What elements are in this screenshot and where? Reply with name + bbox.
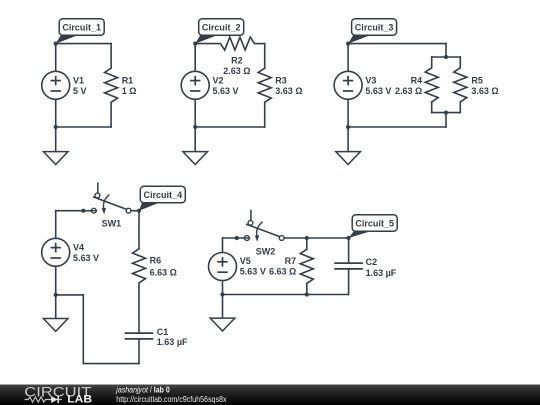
resistor R2 — [220, 37, 254, 50]
wire: R4 branch top lead — [431, 57, 433, 68]
wire: R6 bottom to C1 top plate — [138, 283, 140, 333]
circuit 1 group — [42, 19, 137, 165]
ground (circuit 5) — [210, 318, 235, 331]
junction dot before SW2 — [235, 236, 239, 240]
ground (circuit 1) — [43, 152, 68, 165]
wire: node A to R1 top (circuit 1 top rail) — [56, 43, 111, 45]
label C1 value — [157, 327, 188, 347]
svg-text:3.63 Ω: 3.63 Ω — [471, 86, 498, 96]
circuit 3 group — [334, 19, 499, 165]
svg-text:6.63 Ω: 6.63 Ω — [150, 267, 177, 277]
wire: circuit 3 ground stub — [347, 127, 349, 152]
junction dot at V5 negative node — [220, 292, 224, 296]
wire: V3 negative terminal to bottom rail — [347, 99, 349, 127]
svg-text:1 Ω: 1 Ω — [122, 86, 137, 96]
svg-text:C1: C1 — [157, 327, 169, 337]
wire: R1 bottom lead — [110, 102, 112, 127]
flag label Circuit_1 — [56, 19, 104, 44]
footer caption text — [115, 385, 227, 404]
voltage source V3 — [334, 71, 362, 99]
svg-text:R4: R4 — [411, 75, 423, 85]
label R4 value — [395, 75, 422, 96]
voltage source V5 — [209, 253, 237, 281]
svg-text:1.63 µF: 1.63 µF — [157, 337, 188, 347]
wire: node C down to V3 positive terminal — [347, 44, 349, 72]
wire: circuit 5 ground stub — [222, 295, 224, 319]
svg-text:5.63 V: 5.63 V — [365, 86, 391, 96]
wire: node B to R2 left lead — [195, 43, 220, 45]
wire: V5 top lead up — [222, 238, 224, 253]
junction dot at V2 negative rail — [193, 125, 197, 129]
junction dot R7 bottom — [305, 292, 309, 296]
resistor R5 — [454, 68, 467, 102]
switch SW2 — [244, 210, 285, 256]
wire: circuit 1 bottom rail — [56, 126, 111, 128]
label V5 value — [240, 256, 266, 277]
label R6 value — [150, 256, 177, 278]
junction dot before SW1 — [81, 209, 85, 213]
wire: R5 branch bottom lead — [459, 102, 461, 113]
svg-text:3.63 Ω: 3.63 Ω — [275, 86, 302, 96]
svg-text:Circuit_3: Circuit_3 — [355, 22, 394, 33]
label R3 value — [275, 75, 302, 96]
svg-text:R6: R6 — [150, 256, 162, 266]
wire: corner down to R3 top — [264, 44, 266, 69]
wire: R7 bottom lead — [306, 283, 308, 294]
wire: bottom stem — [445, 113, 447, 127]
wire: R5 branch top lead — [459, 57, 461, 68]
label C2 value — [366, 257, 397, 278]
capacitor C1 — [125, 333, 154, 339]
wire: bottom node to ground stub — [55, 127, 57, 152]
svg-text:Circuit_4: Circuit_4 — [144, 189, 183, 200]
resistor R1 — [105, 68, 118, 102]
svg-text:R2: R2 — [231, 55, 243, 65]
svg-text:2.63 Ω: 2.63 Ω — [223, 66, 250, 76]
wire: top rail to switch left terminal — [56, 210, 96, 212]
ground (circuit 3) — [336, 152, 361, 165]
svg-text:6.63 Ω: 6.63 Ω — [269, 267, 296, 277]
label R5 value — [471, 75, 498, 96]
svg-text:C2: C2 — [366, 257, 378, 267]
svg-text:SW2: SW2 — [256, 246, 276, 256]
wire: R1 top lead — [110, 44, 112, 69]
wire: circuit 3 bottom rail — [348, 126, 446, 128]
switch SW1 — [90, 183, 131, 229]
circuit 5 group — [209, 210, 398, 331]
junction dot at V3 negative rail — [346, 125, 350, 129]
label R7 value — [269, 256, 296, 277]
wire: circuit 2 ground stub — [194, 127, 196, 152]
label V2 value — [213, 76, 239, 97]
svg-text:2.63 Ω: 2.63 Ω — [395, 86, 422, 96]
wire: C2 top lead — [348, 238, 350, 263]
wire: circuit 4 bottom run — [83, 363, 139, 365]
label R2 value — [223, 55, 250, 76]
circuit 4 group — [42, 183, 188, 364]
junction dot at V4 negative node — [54, 293, 58, 297]
wire: C2 bottom lead — [348, 269, 350, 295]
svg-text:Circuit_2: Circuit_2 — [202, 22, 241, 33]
wire: node C to parallel stem — [348, 43, 446, 45]
wire: node B down to V2 positive terminal — [194, 44, 196, 72]
svg-text:R3: R3 — [275, 75, 287, 85]
wire: circuit 5 bottom rail — [223, 294, 349, 296]
svg-text:LAB: LAB — [67, 393, 92, 405]
svg-text:5.63 V: 5.63 V — [73, 253, 99, 263]
wire: V5 negative lead — [222, 281, 224, 295]
svg-text:V1: V1 — [73, 76, 84, 86]
svg-text:Circuit_5: Circuit_5 — [355, 218, 394, 229]
svg-text:R7: R7 — [285, 256, 297, 266]
junction dot bottom of parallel pair — [444, 111, 448, 115]
voltage source V1 — [42, 71, 70, 99]
svg-text:5.63 V: 5.63 V — [213, 86, 239, 96]
node D junction dot (circuit 4 flag node) — [137, 209, 141, 213]
svg-text:http://circuitlab.com/c9cfuh56: http://circuitlab.com/c9cfuh56sqs8x — [116, 394, 227, 404]
svg-text:V2: V2 — [213, 76, 224, 86]
resistor R7 — [300, 249, 313, 283]
svg-text:V5: V5 — [240, 256, 251, 266]
wire: switch right terminal to R7/C2 rail — [284, 237, 348, 239]
junction dot at V1 negative rail — [54, 125, 58, 129]
label V3 value — [365, 76, 391, 97]
wire: R3 bottom lead — [264, 102, 266, 127]
wire: C1 bottom plate down — [138, 339, 140, 364]
voltage source V4 — [42, 238, 70, 266]
wire: V1 negative terminal down to bottom rail — [55, 99, 57, 127]
wire: V2 negative terminal to bottom rail — [194, 99, 196, 127]
junction dot R7 top — [305, 236, 309, 240]
wire: top rail of parallel pair — [432, 56, 461, 58]
node A junction dot (circuit 1 flag node) — [54, 42, 58, 46]
flag label Circuit_3 — [348, 19, 397, 44]
resistor R6 — [133, 249, 146, 283]
flag label Circuit_5 — [349, 215, 398, 238]
node C junction dot (circuit 3 flag node) — [346, 42, 350, 46]
junction dot top of parallel pair — [444, 55, 448, 59]
svg-text:SW1: SW1 — [102, 219, 122, 229]
wire: switch right terminal to node D — [131, 210, 139, 212]
node B junction dot (circuit 2 flag node) — [193, 42, 197, 46]
svg-text:1.63 µF: 1.63 µF — [366, 268, 397, 278]
capacitor C2 — [334, 263, 363, 269]
wire: V4 top lead up — [55, 211, 57, 239]
svg-text:V3: V3 — [365, 76, 376, 86]
ground (circuit 2) — [183, 152, 208, 165]
wire: V4 negative lead — [55, 266, 57, 295]
label V1 value — [73, 76, 87, 97]
wire: R7 top lead — [306, 238, 308, 249]
ground (circuit 4) — [43, 319, 68, 332]
wire: bottom rail of parallel pair — [432, 112, 461, 114]
wire: to V4 negative node — [56, 294, 84, 296]
svg-text:R5: R5 — [471, 75, 483, 85]
svg-text:R1: R1 — [122, 75, 134, 85]
wire: stem down to top junction — [445, 44, 447, 57]
node E junction dot (circuit 5 flag node) — [347, 236, 351, 240]
circuit 2 group — [181, 19, 302, 165]
flag label Circuit_4 — [139, 186, 185, 211]
svg-text:Circuit_1: Circuit_1 — [62, 22, 101, 33]
wire: bottom run up — [82, 295, 84, 364]
footer black bar — [0, 385, 540, 405]
wire: node A down to V1 positive terminal — [55, 44, 57, 72]
wire: circuit 2 bottom rail — [195, 126, 265, 128]
svg-text:V4: V4 — [73, 243, 84, 253]
svg-text:5.63 V: 5.63 V — [240, 267, 266, 277]
voltage source V2 — [181, 71, 209, 99]
CircuitLab logo — [24, 384, 92, 405]
label R1 value — [122, 75, 137, 96]
wire: R2 right lead to corner — [255, 43, 265, 45]
wire: R4 branch bottom lead — [431, 102, 433, 113]
label V4 value — [73, 243, 99, 264]
resistor R3 — [258, 68, 271, 102]
svg-text:5 V: 5 V — [73, 86, 87, 96]
wire: node D down to R6 top — [138, 211, 140, 249]
flag label Circuit_2 — [195, 19, 244, 44]
resistor R4 — [425, 68, 438, 102]
wire: top rail to switch left terminal — [223, 237, 250, 239]
wire: circuit 4 ground stub — [55, 295, 57, 319]
